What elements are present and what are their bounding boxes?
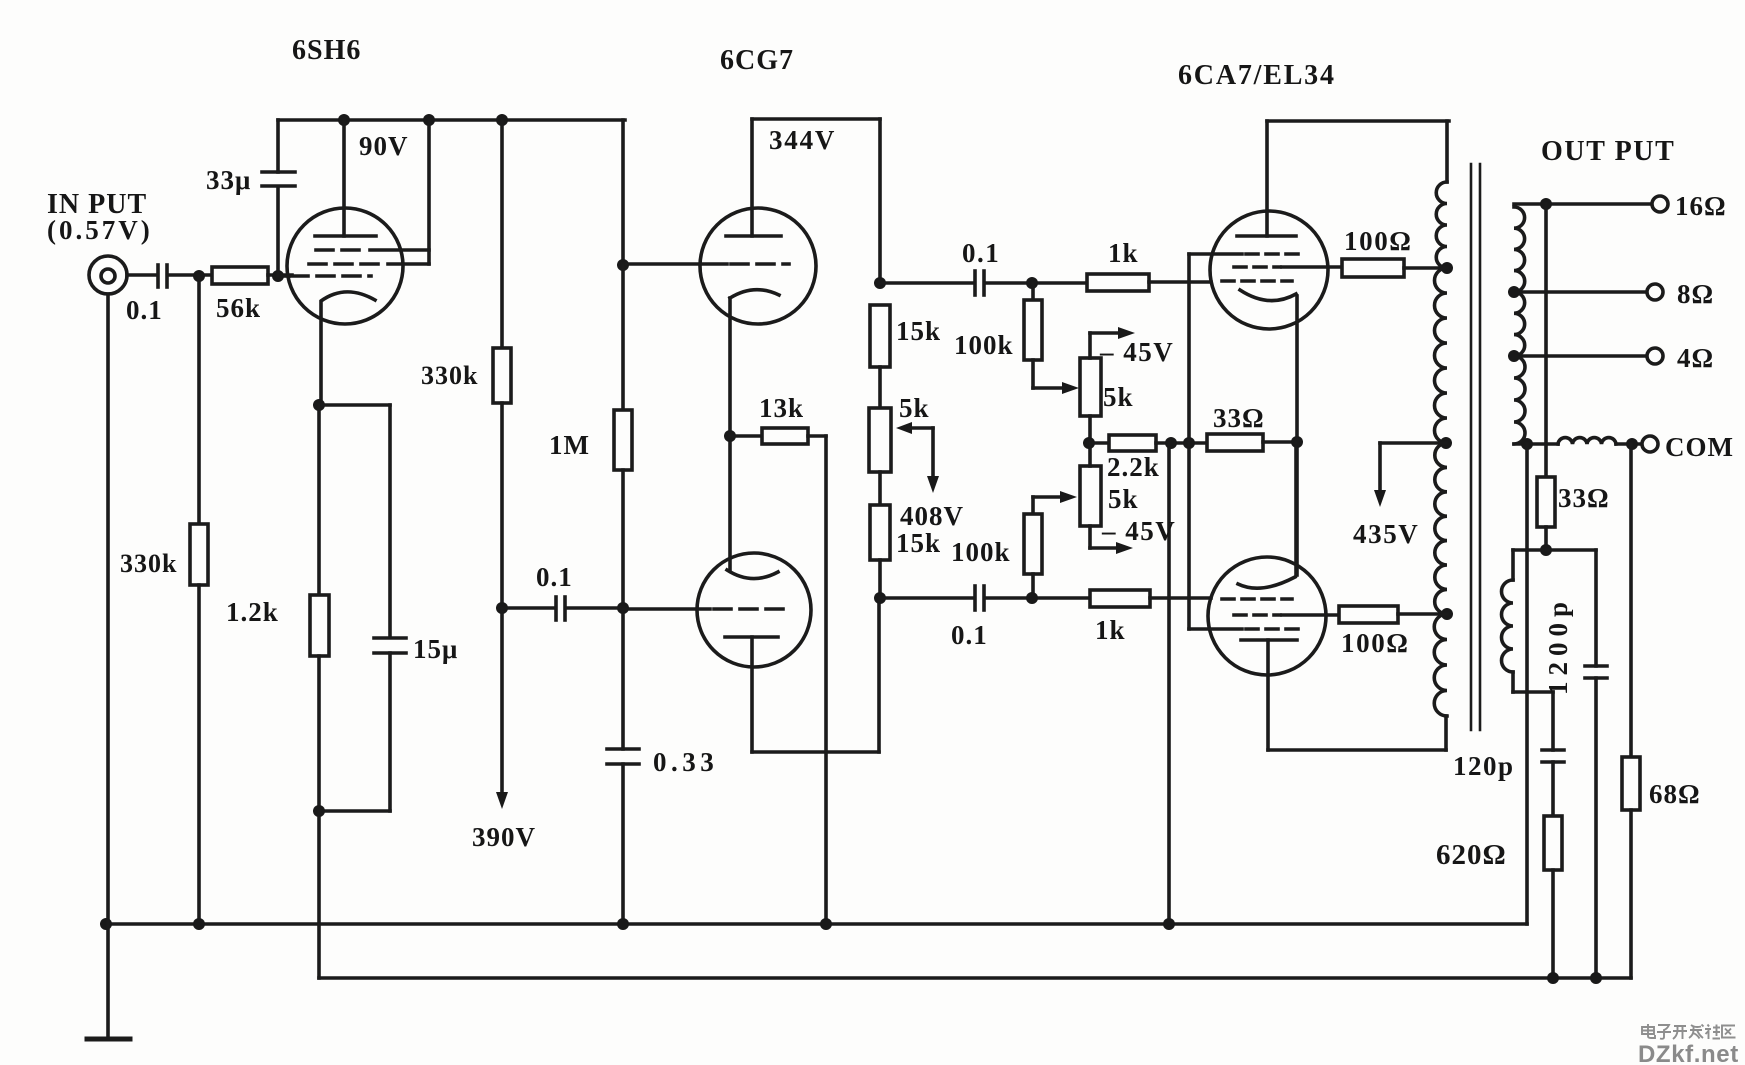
node fb 1200p bbox=[1590, 972, 1602, 984]
svg-text:344V: 344V bbox=[769, 125, 836, 155]
node grid junction input bbox=[193, 270, 205, 282]
node 16 ohm branch bbox=[1540, 198, 1552, 210]
svg-text:90V: 90V bbox=[359, 131, 409, 161]
tube EL34b grid g3 bbox=[1189, 627, 1302, 631]
node primary center tap bbox=[1440, 437, 1452, 449]
svg-text:56k: 56k bbox=[216, 293, 261, 323]
wire 4 ohm tap bbox=[1514, 354, 1647, 358]
tube EL34b envelope bbox=[1208, 557, 1326, 675]
resistor 2.2k bbox=[1089, 435, 1207, 451]
input jack J1 bbox=[89, 256, 127, 294]
svg-text:15k: 15k bbox=[896, 528, 941, 558]
svg-text:33Ω: 33Ω bbox=[1558, 483, 1610, 513]
wire bias to ground bus bbox=[1167, 443, 1171, 924]
svg-text:100k: 100k bbox=[951, 537, 1011, 567]
node bias divider mid bbox=[1083, 437, 1095, 449]
svg-text:0.1: 0.1 bbox=[951, 620, 988, 650]
wire g3 riser bbox=[1187, 254, 1191, 443]
svg-text:(0.57V): (0.57V) bbox=[47, 215, 153, 245]
node COM junction bbox=[1626, 438, 1638, 450]
svg-text:6CA7/EL34: 6CA7/EL34 bbox=[1178, 60, 1336, 91]
node 4 ohm tap bbox=[1508, 350, 1520, 362]
svg-text:330k: 330k bbox=[421, 361, 478, 390]
wire 344V riser bbox=[878, 119, 882, 283]
tube 6SH6 grid g1 bbox=[283, 274, 371, 278]
resistor 68 ohm feedback bbox=[1622, 444, 1640, 978]
svg-text:120p: 120p bbox=[1453, 751, 1515, 781]
wire choke to terminal bbox=[1616, 442, 1642, 446]
svg-text:1k: 1k bbox=[1108, 238, 1139, 268]
wire 344V plate supply bbox=[752, 117, 880, 121]
capacitor 33u bypass bbox=[262, 120, 295, 276]
tube 6SH6 envelope bbox=[287, 208, 403, 324]
transformer secondary winding bbox=[1514, 207, 1525, 444]
svg-text:16Ω: 16Ω bbox=[1675, 191, 1727, 221]
wire cathode to 15u bbox=[319, 405, 390, 636]
node zobel top bbox=[1540, 544, 1552, 556]
svg-text:1M: 1M bbox=[549, 430, 590, 460]
svg-text:33μ: 33μ bbox=[206, 165, 251, 195]
capacitor 1200p bbox=[1546, 550, 1607, 978]
tube 6CG7b envelope bbox=[697, 553, 811, 667]
svg-text:1k: 1k bbox=[1095, 615, 1126, 645]
tube 6SH6 plate bbox=[315, 120, 376, 236]
wire EL34 plate top bbox=[1267, 119, 1449, 123]
wire jack to C input bbox=[127, 273, 156, 277]
svg-text:5k: 5k bbox=[1103, 382, 1134, 412]
wiper arrow 5k chain bbox=[896, 422, 939, 493]
potentiometer 5k lower bias bbox=[1080, 443, 1133, 554]
capacitor 0.33 bbox=[607, 608, 639, 924]
tube EL34b plate bbox=[1241, 640, 1446, 750]
svg-text:5k: 5k bbox=[1108, 484, 1139, 514]
svg-text:2.2k: 2.2k bbox=[1107, 452, 1160, 482]
potentiometer 5k upper bias bbox=[1080, 327, 1135, 443]
tube EL34a envelope bbox=[1210, 211, 1328, 329]
tube 6CG7a plate bbox=[726, 119, 781, 236]
wire 90V to 6CG7 grid bbox=[621, 120, 625, 265]
wire to 56k bbox=[199, 273, 212, 277]
node 8 ohm tap bbox=[1508, 286, 1520, 298]
resistor 1k lower bbox=[1090, 590, 1211, 607]
node fb 620 bbox=[1547, 972, 1559, 984]
tube 6SH6 grid g3 bbox=[316, 248, 429, 252]
node cathode join bbox=[1291, 436, 1303, 448]
wire 16 ohm tap bbox=[1514, 202, 1652, 206]
tube EL34a grid g2 bbox=[1234, 265, 1342, 269]
capacitor 0.1 upper coupling bbox=[880, 271, 1087, 295]
svg-text:620Ω: 620Ω bbox=[1436, 839, 1507, 871]
node gnd input bbox=[100, 918, 112, 930]
svg-text:6SH6: 6SH6 bbox=[292, 35, 361, 66]
node grid of 6SH6 bbox=[272, 270, 284, 282]
wire 8 ohm tap bbox=[1514, 290, 1647, 294]
resistor 13k bbox=[730, 428, 826, 924]
node splitter top bbox=[874, 277, 886, 289]
node secondary ground bbox=[1521, 438, 1533, 450]
node 6CG7 grid bbox=[617, 259, 629, 271]
watermark line 1 bbox=[1642, 1024, 1736, 1039]
tube EL34b grid g1 bbox=[1222, 597, 1292, 601]
node lower grid row bbox=[1026, 592, 1038, 604]
resistor 33 ohm mid bbox=[1207, 434, 1297, 451]
resistor 100 ohm lower bbox=[1339, 606, 1447, 623]
resistor 1.2k bbox=[310, 405, 329, 811]
resistor 15k lower bbox=[870, 505, 890, 598]
resistor 330k input bbox=[190, 276, 208, 924]
tube EL34a cathode bbox=[1240, 290, 1297, 575]
terminal 4 ohm bbox=[1647, 348, 1663, 364]
node gnd 330k bbox=[193, 918, 205, 930]
transformer primary winding bbox=[1434, 121, 1447, 716]
wire COM row bbox=[1514, 442, 1558, 446]
resistor 100k lower bbox=[1024, 491, 1077, 598]
tube EL34a plate bbox=[1237, 121, 1296, 236]
resistor 330k dropper bbox=[493, 120, 511, 608]
svg-text:100k: 100k bbox=[954, 330, 1014, 360]
wire ground bus bbox=[106, 922, 1527, 926]
capacitor 0.1 input bbox=[158, 265, 199, 287]
node 6CG7b grid bbox=[617, 602, 629, 614]
node screen tap bbox=[423, 114, 435, 126]
tube EL34a grid g3 bbox=[1189, 252, 1302, 256]
node gnd bias bbox=[1163, 918, 1175, 930]
node gnd 13k bbox=[820, 918, 832, 930]
svg-text:COM: COM bbox=[1665, 432, 1734, 462]
node splitter bottom bbox=[874, 592, 886, 604]
tube 6CG7a cathode bbox=[730, 290, 779, 570]
wire 90V plate bus bbox=[278, 118, 625, 122]
node cathode 6SH6 bbox=[313, 399, 325, 411]
svg-text:408V: 408V bbox=[900, 501, 964, 531]
svg-text:100Ω: 100Ω bbox=[1341, 628, 1410, 658]
node 330k tap bbox=[496, 114, 508, 126]
transformer core bbox=[1471, 164, 1480, 730]
tube 6SH6 grid g2 bbox=[309, 262, 429, 266]
node cathode network bottom bbox=[313, 805, 325, 817]
terminal 8 ohm bbox=[1647, 284, 1663, 300]
node feedback tap bbox=[1165, 437, 1177, 449]
tube 6CG7a envelope bbox=[700, 208, 816, 324]
svg-text:100Ω: 100Ω bbox=[1344, 226, 1413, 256]
svg-text:15μ: 15μ bbox=[413, 634, 458, 664]
svg-text:390V: 390V bbox=[472, 822, 536, 852]
svg-text:0.33: 0.33 bbox=[653, 747, 718, 777]
svg-text:0.1: 0.1 bbox=[536, 562, 573, 592]
svg-text:8Ω: 8Ω bbox=[1677, 279, 1714, 309]
node gnd 0.33 bbox=[617, 918, 629, 930]
svg-text:4Ω: 4Ω bbox=[1677, 343, 1714, 373]
label IN PUT (0.57V) bbox=[47, 189, 153, 245]
node upper grid row bbox=[1026, 277, 1038, 289]
tube EL34b grid g2 bbox=[1234, 613, 1339, 617]
tube 6SH6 cathode bbox=[321, 292, 375, 405]
wire secondary ground drop bbox=[1525, 444, 1529, 924]
svg-text:1200p: 1200p bbox=[1543, 601, 1573, 695]
svg-text:6CG7: 6CG7 bbox=[720, 45, 794, 76]
svg-text:– 45V: – 45V bbox=[1101, 516, 1176, 546]
potentiometer 5k chain bbox=[869, 408, 891, 505]
capacitor 120p bbox=[1542, 692, 1564, 816]
resistor 33 ohm feedback bbox=[1537, 204, 1555, 550]
resistor 56k bbox=[212, 267, 292, 284]
tube 6CG7b plate bbox=[725, 598, 879, 752]
svg-text:0.1: 0.1 bbox=[962, 238, 1000, 268]
capacitor 0.1 lower coupling bbox=[880, 586, 1090, 610]
node g3 tap bbox=[1183, 437, 1195, 449]
resistor 15k upper bbox=[870, 305, 890, 408]
wire screen riser bbox=[427, 120, 431, 264]
node 13k junction bbox=[724, 430, 736, 442]
resistor 100k upper bbox=[1024, 283, 1079, 394]
svg-text:33Ω: 33Ω bbox=[1213, 403, 1265, 433]
inductor zobel bbox=[1502, 550, 1554, 692]
tube 6CG7b cathode bbox=[727, 570, 778, 579]
node UL tap lower bbox=[1441, 608, 1453, 620]
wire g3 dropper bbox=[1187, 443, 1191, 629]
arrow 390V measurement bbox=[496, 608, 508, 809]
svg-text:– 45V: – 45V bbox=[1099, 337, 1174, 367]
node plate tap bbox=[338, 114, 350, 126]
svg-text:15k: 15k bbox=[896, 316, 941, 346]
wire input ground drop bbox=[106, 294, 110, 1037]
tube EL34b cathode bbox=[1238, 442, 1296, 588]
svg-text:68Ω: 68Ω bbox=[1649, 779, 1701, 809]
resistor 1M bbox=[614, 265, 632, 608]
terminal COM bbox=[1642, 436, 1658, 452]
arrow 435V measurement bbox=[1374, 443, 1446, 507]
capacitor 0.1 interstage bbox=[502, 597, 623, 620]
svg-text:1.2k: 1.2k bbox=[226, 597, 279, 627]
node UL tap upper bbox=[1441, 262, 1453, 274]
svg-text:OUT PUT: OUT PUT bbox=[1541, 136, 1675, 167]
svg-text:330k: 330k bbox=[120, 549, 177, 578]
tube 6CG7a grid bbox=[623, 262, 789, 266]
svg-text:0.1: 0.1 bbox=[126, 295, 163, 325]
resistor 100 ohm upper bbox=[1342, 259, 1447, 277]
resistor 620 ohm bbox=[1544, 816, 1562, 978]
node 390V bbox=[496, 602, 508, 614]
svg-text:435V: 435V bbox=[1353, 519, 1419, 549]
terminal 16 ohm bbox=[1652, 196, 1668, 212]
ground symbol bbox=[87, 1037, 130, 1042]
tube EL34a grid g1 bbox=[1222, 279, 1292, 283]
inductor COM choke bbox=[1558, 438, 1616, 444]
svg-text:DZkf.net: DZkf.net bbox=[1638, 1041, 1739, 1065]
svg-text:5k: 5k bbox=[899, 393, 930, 423]
wire feedback bus bbox=[319, 811, 1631, 978]
capacitor 15u bbox=[319, 638, 406, 811]
tube 6CG7b grid bbox=[623, 607, 788, 611]
svg-text:13k: 13k bbox=[759, 393, 804, 423]
resistor 1k upper bbox=[1087, 274, 1211, 291]
